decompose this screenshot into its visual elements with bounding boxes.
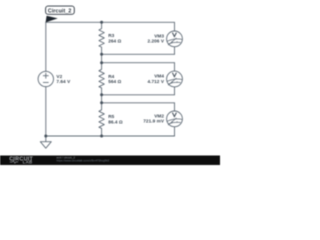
ground: [40, 136, 51, 148]
wire V2 bottom lead: [45, 87, 47, 136]
voltage source V2: [38, 71, 53, 86]
svg-text:R4: R4: [108, 74, 114, 79]
svg-text:4.712 V: 4.712 V: [147, 79, 164, 84]
node R4/R5 junction upper: [100, 93, 103, 96]
wire rail between R4 and R5: [101, 95, 103, 103]
voltmeter VM3: [167, 31, 183, 47]
node R4/R5 junction lower: [100, 101, 103, 104]
node R3/R4 junction upper: [100, 53, 103, 56]
voltmeter VM2: [167, 111, 183, 127]
labels: [56, 33, 164, 125]
footer bar: [0, 156, 220, 166]
svg-text:R5: R5: [108, 114, 114, 119]
resistor R5: [99, 103, 104, 136]
wire VM4 bottom horizontal: [102, 94, 175, 96]
svg-text:7.64 V: 7.64 V: [56, 79, 71, 84]
wire VM4 bottom stub: [174, 87, 176, 95]
wire top left vertical (V2 top lead): [45, 22, 47, 71]
wire VM2 top stub: [174, 103, 176, 111]
wire top horizontal right segment: [102, 21, 175, 23]
label V letter VM3: [172, 33, 176, 37]
svg-text:https://www.circuitlab.com/c/5: https://www.circuitlab.com/c/5m472hcg9k3: [57, 159, 110, 163]
wire bottom horizontal: [46, 135, 175, 137]
label V letter VM4: [172, 73, 176, 77]
wire VM4 top stub: [174, 63, 176, 71]
wire rail between R3 and R4: [101, 54, 103, 62]
node bottom rail junction: [100, 135, 103, 138]
voltmeter VM3 meter face: [167, 38, 182, 45]
node ground junction: [44, 135, 47, 138]
svg-text:86.4 Ω: 86.4 Ω: [108, 120, 123, 125]
svg-text:LAB: LAB: [23, 160, 33, 165]
junction node dots: [44, 21, 103, 138]
wire VM2 bottom stub: [174, 127, 176, 136]
resistor R4: [99, 63, 104, 95]
svg-text:VM3: VM3: [154, 33, 164, 38]
voltmeter VM4: [167, 71, 183, 87]
svg-text:R3: R3: [108, 33, 114, 38]
node name tag Circuit_2: [46, 6, 75, 22]
svg-text:564 Ω: 564 Ω: [108, 79, 121, 84]
label V letter VM2: [172, 113, 176, 117]
wire VM3 bottom stub: [174, 47, 176, 55]
svg-text:Circuit_2: Circuit_2: [48, 8, 72, 14]
wire top horizontal left segment: [46, 21, 102, 23]
svg-text:VM2: VM2: [154, 113, 164, 118]
node top rail junction: [100, 21, 103, 24]
voltmeter VM2 meter face: [167, 118, 182, 125]
node R3/R4 junction lower: [100, 61, 103, 64]
voltmeter VM4 meter face: [167, 78, 182, 85]
footer text: [57, 155, 110, 162]
svg-text:VM4: VM4: [154, 74, 164, 79]
wire VM4 top horizontal: [102, 62, 175, 64]
resistor R3: [99, 22, 104, 54]
svg-text:721.9 mV: 721.9 mV: [143, 119, 165, 124]
wire VM2 top horizontal: [102, 102, 175, 104]
footer logo: [9, 156, 33, 164]
svg-text:264 Ω: 264 Ω: [108, 38, 121, 43]
svg-text:2.206 V: 2.206 V: [147, 39, 164, 44]
wire VM3 bottom horizontal: [102, 53, 175, 55]
wire VM3 top stub: [174, 22, 176, 31]
